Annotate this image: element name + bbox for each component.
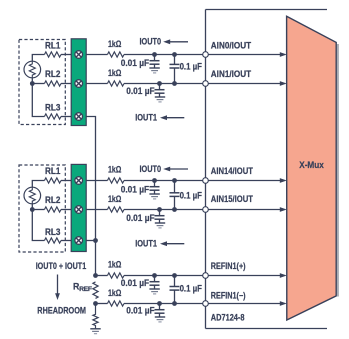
svg-text:AIN1/IOUT: AIN1/IOUT	[211, 69, 252, 79]
svg-text:0.1 µF: 0.1 µF	[180, 283, 203, 293]
svg-text:0.01 µF: 0.01 µF	[121, 185, 150, 195]
svg-text:RL2: RL2	[45, 195, 60, 205]
svg-text:0.01 µF: 0.01 µF	[121, 58, 150, 68]
svg-text:IOUT0: IOUT0	[140, 37, 162, 47]
resistor RL3 (sensor 2)	[44, 238, 61, 243]
svg-text:1kΩ: 1kΩ	[108, 194, 121, 204]
wire/arrow AIN14 into X-Mux	[206, 178, 287, 183]
svg-text:IOUT1: IOUT1	[135, 113, 157, 123]
junction C6 node row E	[172, 207, 177, 212]
svg-text:RHEADROOM: RHEADROOM	[37, 306, 86, 316]
resistor RL1 (sensor 1)	[44, 52, 61, 57]
label R1 1 k&#937;	[108, 39, 121, 49]
svg-text:RL1: RL1	[45, 166, 60, 176]
svg-text:RL3: RL3	[45, 102, 60, 112]
resistor RL2 (sensor 2)	[44, 207, 61, 212]
svg-text:1kΩ: 1kΩ	[108, 68, 121, 78]
svg-text:REFIN1(+): REFIN1(+)	[211, 261, 246, 271]
wire R2 to bus (AIN1)	[124, 83, 206, 85]
wire R3 to bus (AIN14)	[124, 180, 206, 182]
svg-text:RREF: RREF	[73, 281, 92, 293]
junction C9 node row G	[172, 273, 177, 278]
svg-text:0.01 µF: 0.01 µF	[121, 278, 150, 288]
annotation arrow IOUT1 (middle)	[160, 241, 184, 246]
wire RTD2 node down to RL3 row	[32, 210, 44, 241]
label C1 0.01 &#181;F	[121, 58, 150, 68]
wire RTD2 top to RL1	[32, 181, 44, 188]
terminal block J1	[71, 39, 86, 126]
junction C7 node	[152, 273, 157, 278]
X-Mux multiplexer U1 shadow	[337, 44, 339, 297]
wire/arrow AIN15 into X-Mux	[206, 207, 287, 212]
wire/arrow REFIN1(-) into X-Mux	[206, 301, 287, 306]
svg-text:AIN15/IOUT: AIN15/IOUT	[211, 194, 254, 204]
wire J2 pin3 to reference chain	[86, 240, 95, 242]
svg-text:AD7124-8: AD7124-8	[211, 313, 245, 323]
label AIN14/IOUT	[211, 166, 254, 176]
wire J2 pin1 to R3	[86, 180, 107, 182]
label RL1 (sensor 1)	[45, 41, 60, 51]
junction C1 node	[152, 52, 157, 57]
terminal block J2	[71, 164, 86, 251]
node REFIN1(+) on bus	[203, 273, 209, 279]
RTD sensor 1 dashed enclosure	[19, 40, 65, 125]
junction C6 node row D	[172, 178, 177, 183]
label C8 0.01 &#181;F	[126, 306, 155, 316]
capacitor C2 0.01 &#181;F	[155, 84, 165, 98]
wire R5 to bus (REFIN1+)	[124, 275, 206, 277]
annotation arrow IOUT1 (top)	[160, 115, 184, 120]
wire RL1 to terminal 1	[61, 54, 71, 56]
label IOUT1 annotation (top)	[135, 113, 157, 123]
annotation arrow IOUT0 (top)	[163, 39, 188, 44]
label R5 1 k&#937;	[108, 260, 121, 270]
resistor RL2 (sensor 1)	[44, 81, 61, 86]
label RL3 (sensor 2)	[45, 227, 60, 237]
wire RL2 lead left	[32, 83, 44, 85]
svg-text:REFIN1(−): REFIN1(−)	[211, 290, 246, 300]
resistor RL1 (sensor 2)	[44, 178, 61, 183]
RTD sensor 2 dashed enclosure	[19, 165, 65, 252]
ground C1	[149, 68, 159, 73]
terminal J1 pin 3	[75, 113, 83, 121]
label R3 1 k&#937;	[108, 165, 121, 175]
svg-text:AIN0/IOUT: AIN0/IOUT	[211, 41, 252, 51]
svg-text:1kΩ: 1kΩ	[108, 260, 121, 270]
svg-text:0.01 µF: 0.01 µF	[126, 86, 155, 96]
svg-text:1kΩ: 1kΩ	[108, 165, 121, 175]
resistor RL3 (sensor 1)	[44, 114, 61, 119]
terminal J2 pin 2	[75, 206, 83, 214]
svg-text:IOUT0 + IOUT1: IOUT0 + IOUT1	[36, 261, 87, 271]
junction C3 node row A	[172, 52, 177, 57]
wire R1 to bus (AIN0)	[124, 54, 206, 56]
label AIN15/IOUT	[211, 194, 254, 204]
wire RL3 to terminal 3	[61, 116, 71, 118]
resistor RHEADROOM	[93, 304, 98, 329]
resistor R5 1 k&#937;	[107, 273, 124, 278]
label R6 1 k&#937;	[108, 288, 121, 298]
wire RTD1 top to RL1	[32, 55, 44, 62]
ground C2	[155, 97, 165, 102]
label C5 0.01 &#181;F	[126, 213, 155, 223]
terminal J1 pin 2	[75, 80, 83, 88]
svg-text:RL2: RL2	[45, 69, 60, 79]
wire J1 pin1 to R1	[86, 54, 107, 56]
wire RTD2 bottom	[31, 204, 33, 210]
RTD element sensor 2	[24, 187, 41, 204]
label IOUT1 annotation (middle)	[135, 239, 157, 249]
junction C8 node	[157, 301, 162, 306]
resistor R1 1 k&#937;	[107, 52, 124, 57]
label AD7124-8	[211, 313, 245, 323]
node AIN15 on bus	[203, 207, 209, 213]
wire bus (AD7124-8 box left edge)	[205, 10, 207, 329]
wire J1 pin3 down the reference chain	[86, 117, 95, 276]
svg-text:1kΩ: 1kΩ	[108, 39, 121, 49]
svg-text:RL3: RL3	[45, 227, 60, 237]
wire R4 to bus (AIN15)	[124, 209, 206, 211]
capacitor C8 0.01 &#181;F	[155, 304, 165, 318]
resistor R6 1 k&#937;	[107, 301, 124, 306]
node AIN1 on bus	[203, 81, 209, 87]
svg-text:0.1 µF: 0.1 µF	[180, 61, 203, 71]
capacitor C6 0.1 &#181;F	[170, 181, 180, 210]
wire R6 to bus (REFIN1-)	[124, 303, 206, 305]
annotation arrow excitation currents down	[55, 275, 60, 301]
X-Mux multiplexer U1	[287, 16, 337, 320]
terminal J2 pin 3	[75, 237, 83, 245]
junction C9 node row H	[172, 301, 177, 306]
svg-text:1kΩ: 1kΩ	[108, 288, 121, 298]
AD7124-8 box bottom edge (wire)	[206, 328, 328, 330]
label X-Mux	[299, 160, 324, 170]
wire RL2 to terminal 2 (J2)	[61, 209, 71, 211]
svg-text:0.01 µF: 0.01 µF	[126, 213, 155, 223]
node AIN14 on bus	[203, 178, 209, 184]
junction RTD1 / RL2 node	[30, 81, 35, 86]
AD7124-8 box top edge (wire)	[206, 9, 328, 11]
label RL2 (sensor 1)	[45, 69, 60, 79]
junction reference chain node row F	[93, 238, 98, 243]
node AIN0 on bus	[203, 52, 209, 58]
label AIN0/IOUT	[211, 41, 252, 51]
label IOUT0 annotation (top)	[140, 37, 162, 47]
label RREF	[73, 281, 92, 293]
label REFIN1(&#8722;)	[211, 290, 246, 300]
svg-text:IOUT0: IOUT0	[140, 164, 162, 174]
label RL2 (sensor 2)	[45, 195, 60, 205]
label RHEADROOM	[37, 306, 86, 316]
junction RTD2 / RL2 node	[30, 207, 35, 212]
ground C4	[149, 194, 159, 199]
svg-text:RL1: RL1	[45, 41, 60, 51]
label C6 0.1 &#181;F	[180, 190, 203, 200]
label R4 1 k&#937;	[108, 194, 121, 204]
label IOUT0 annotation (middle)	[140, 164, 162, 174]
svg-text:AIN14/IOUT: AIN14/IOUT	[211, 166, 254, 176]
resistor R4 1 k&#937;	[107, 207, 124, 212]
capacitor C5 0.01 &#181;F	[155, 210, 165, 224]
capacitor C7 0.01 &#181;F	[150, 276, 160, 290]
resistor R2 1 k&#937;	[107, 81, 124, 86]
capacitor C4 0.01 &#181;F	[150, 181, 160, 195]
wire RL2 to terminal 2	[61, 83, 71, 85]
label C9 0.1 &#181;F	[180, 283, 203, 293]
label RL3 (sensor 1)	[45, 102, 60, 112]
label IOUT0 + IOUT1	[36, 261, 87, 271]
capacitor C3 0.1 &#181;F	[170, 55, 180, 84]
label C4 0.01 &#181;F	[121, 185, 150, 195]
svg-text:X-Mux: X-Mux	[299, 160, 324, 170]
terminal J2 pin 1	[75, 177, 83, 185]
junction C3 node row B	[172, 81, 177, 86]
svg-text:0.1 µF: 0.1 µF	[180, 190, 203, 200]
label C2 0.01 &#181;F	[126, 86, 155, 96]
junction C4 node	[152, 178, 157, 183]
annotation arrow IOUT0 (middle)	[163, 167, 188, 172]
ground RHEADROOM	[90, 329, 100, 334]
wire RTD1 bottom	[31, 78, 33, 84]
ground C7	[149, 289, 159, 294]
wire RL2 lead left (J2)	[32, 209, 44, 211]
node REFIN1(-) on bus	[203, 301, 209, 307]
junction REFIN1(-) node at reference chain	[93, 301, 98, 306]
resistor RREF	[93, 282, 98, 299]
wire REFIN1(-) row to R6	[96, 303, 108, 305]
junction REFIN1(+) node at reference chain	[93, 273, 98, 278]
wire J1 pin2 to R2	[86, 83, 107, 85]
terminal J1 pin 1	[75, 51, 83, 59]
junction C2 node	[157, 81, 162, 86]
ground C8	[155, 317, 165, 322]
label C7 0.01 &#181;F	[121, 278, 150, 288]
junction C5 node	[157, 207, 162, 212]
capacitor C1 0.01 &#181;F	[150, 55, 160, 69]
label C3 0.1 &#181;F	[180, 61, 203, 71]
wire RL3 to terminal 3 (J2)	[61, 240, 71, 242]
wire RTD1 node down to RL3 row	[32, 84, 44, 117]
wire/arrow AIN0 into X-Mux	[206, 52, 287, 57]
RTD element sensor 1	[24, 61, 41, 78]
wire/arrow REFIN1(+) into X-Mux	[206, 273, 287, 278]
wire RL1 to terminal 1 (J2)	[61, 180, 71, 182]
wire REFIN1(+) row to R5	[96, 275, 108, 277]
label R2 1 k&#937;	[108, 68, 121, 78]
wire J2 pin2 to R4	[86, 209, 107, 211]
wire/arrow AIN1 into X-Mux	[206, 81, 287, 86]
label REFIN1(+)	[211, 261, 246, 271]
resistor R3 1 k&#937;	[107, 178, 124, 183]
capacitor C9 0.1 &#181;F	[170, 276, 180, 304]
ground C5	[155, 223, 165, 228]
label AIN1/IOUT	[211, 69, 252, 79]
svg-text:0.01 µF: 0.01 µF	[126, 306, 155, 316]
label RL1 (sensor 2)	[45, 166, 60, 176]
svg-text:IOUT1: IOUT1	[135, 239, 157, 249]
